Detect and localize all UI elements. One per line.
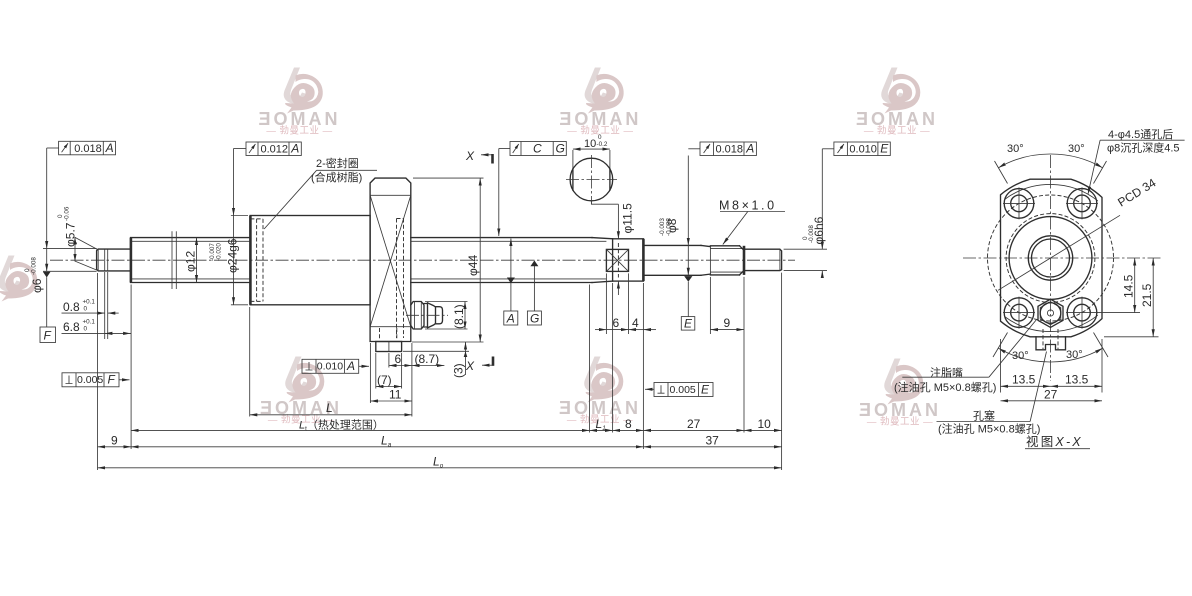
svg-text:φ12: φ12: [184, 251, 198, 272]
dim 0.8 groove width: [104, 272, 106, 339]
svg-text:-0.06: -0.06: [64, 206, 71, 221]
ball nut body phi24g6: [250, 216, 370, 305]
svg-text:30°: 30°: [1007, 143, 1024, 155]
shaft step face at screw start: [130, 238, 133, 283]
svg-text:6.8: 6.8: [63, 320, 80, 334]
extension journal right face: [642, 283, 644, 449]
grease nipple side view: [411, 302, 424, 330]
angle dim 30/30 top: [999, 154, 1051, 168]
flange bottom tab: [376, 342, 402, 352]
MAIN VIEW: [24, 134, 890, 470]
svg-text:30°: 30°: [1066, 349, 1083, 361]
phi6h6 end journal: [744, 249, 782, 270]
svg-text:Lt（热处理范围）: Lt（热处理范围）: [299, 418, 384, 433]
bolt hole top-right: [1067, 189, 1097, 219]
bolt hole bottom-left: [1004, 298, 1034, 328]
tolerance frame runout C G: [510, 142, 566, 156]
extensions 6/4 bearing dims: [605, 273, 607, 334]
svg-text:0.005: 0.005: [670, 384, 696, 396]
watermark bottom-middle: [559, 357, 641, 426]
watermark top-middle: [559, 68, 641, 137]
svg-text:φ8沉孔深度4.5: φ8沉孔深度4.5: [1107, 141, 1180, 155]
svg-text:(8.1): (8.1): [452, 304, 466, 329]
svg-text:X: X: [465, 149, 475, 163]
svg-text:视图X-X: 视图X-X: [1026, 434, 1083, 449]
svg-text:0.012: 0.012: [261, 144, 289, 156]
pilot circle: [1009, 217, 1092, 300]
watermark partial far left: [0, 256, 37, 302]
bottom dim row Lo: [98, 467, 782, 469]
tolerance frame 0.018 A left: [59, 141, 116, 155]
svg-text:30°: 30°: [1012, 350, 1029, 362]
datum E box: [681, 317, 695, 331]
datum G on axis: [533, 261, 535, 311]
svg-text:0.010: 0.010: [317, 361, 343, 373]
dim (3) tab: [412, 341, 484, 343]
dim (8.7): [412, 365, 445, 367]
grease nipple end-on hex: [1038, 299, 1063, 327]
dim 6.8: [62, 332, 132, 334]
datum F flag: [43, 272, 51, 278]
dim phi44 flange: [413, 177, 484, 179]
bottom dim row Lt L1 8 27 10: [131, 429, 589, 431]
dim (7) tab: [375, 353, 377, 389]
svg-text:4: 4: [632, 316, 639, 330]
svg-text:G: G: [530, 311, 539, 325]
dim phi24g6 nut body: [231, 215, 248, 217]
svg-text:30°: 30°: [1068, 143, 1085, 155]
svg-text:(8.7): (8.7): [415, 352, 440, 366]
svg-text:6: 6: [613, 316, 620, 330]
svg-text:A: A: [290, 142, 299, 156]
svg-text:F: F: [44, 329, 52, 343]
dim 27: [1001, 400, 1103, 402]
svg-text:4-φ4.5通孔后: 4-φ4.5通孔后: [1108, 128, 1173, 141]
svg-text:37: 37: [706, 434, 720, 448]
svg-text:9: 9: [724, 316, 731, 330]
flange chamfer arcs: [1005, 184, 1098, 200]
svg-text:10: 10: [584, 138, 596, 150]
extension line thread end: [589, 285, 591, 433]
dim 11 flange width: [369, 343, 371, 403]
M8x1.0 thread section: [710, 245, 739, 247]
dim phi5.7 groove: [74, 237, 76, 262]
svg-text:E: E: [684, 317, 693, 331]
flat cross-section circle: [570, 158, 613, 201]
svg-text:14.5: 14.5: [1122, 274, 1136, 298]
seal (dashed) inside nut left end: [256, 219, 258, 302]
screw shaft thread root lines: [131, 240, 251, 242]
dim 9 M8 length: [710, 329, 744, 331]
svg-text:0.018: 0.018: [74, 143, 102, 155]
svg-text:-0.2: -0.2: [597, 141, 608, 148]
tolerance frame 0.012 A mid: [246, 142, 301, 156]
svg-text:M8×1.0: M8×1.0: [719, 199, 777, 213]
bolt hole top-left: [1004, 189, 1034, 219]
datum A on screw: [510, 239, 512, 312]
shaft phi8 section: [643, 244, 701, 246]
svg-text:(注油孔 M5×0.8螺孔): (注油孔 M5×0.8螺孔): [894, 380, 996, 394]
watermark bottom-right: [859, 359, 941, 428]
extension line tip left face: [97, 273, 99, 470]
svg-text:21.5: 21.5: [1140, 283, 1154, 307]
extension journal left face: [612, 283, 614, 433]
svg-text:φ24g6: φ24g6: [226, 238, 240, 273]
centerline of screw shaft: [50, 259, 795, 261]
dim 21.5: [1104, 336, 1159, 338]
svg-text:C: C: [533, 142, 542, 156]
svg-text:-0.020: -0.020: [216, 243, 223, 261]
center crosshair: [963, 257, 1161, 259]
frame perp 0.005 F: [62, 373, 119, 387]
svg-text:E: E: [701, 382, 710, 396]
svg-text:6: 6: [395, 352, 402, 366]
svg-text:(合成树脂): (合成树脂): [311, 170, 362, 184]
bolt hole bottom-right: [1067, 298, 1097, 328]
frame perp 0.005 E: [654, 383, 713, 397]
flange cross X: [370, 195, 411, 326]
extension shaft right end: [781, 273, 783, 470]
watermark top-right: [856, 68, 938, 137]
svg-text:A: A: [506, 311, 515, 325]
bottom dim row 9 La 37: [98, 446, 132, 448]
svg-text:0.010: 0.010: [849, 144, 877, 156]
svg-text:A: A: [745, 142, 754, 156]
svg-text:2-密封圈: 2-密封圈: [316, 156, 359, 170]
screw crest/root circles: [1028, 236, 1072, 280]
thread start marker double lines: [171, 231, 173, 289]
svg-text:(注油孔 M5×0.8螺孔): (注油孔 M5×0.8螺孔): [938, 422, 1040, 436]
bearing block with X: [606, 249, 628, 271]
connector from section circle to journal: [591, 201, 618, 204]
dim 6 and 4: [595, 329, 606, 331]
dim L nut: [249, 307, 251, 417]
svg-text:0: 0: [598, 134, 602, 141]
dim phi6 left tip: [43, 248, 97, 250]
watermark top-left: [259, 68, 341, 137]
frame perp 0.010 A: [302, 359, 359, 373]
svg-text:-0.008: -0.008: [31, 257, 38, 275]
svg-text:(7): (7): [377, 373, 392, 387]
svg-text:孔塞: 孔塞: [973, 409, 995, 423]
END VIEW: [894, 128, 1185, 449]
svg-text:φ5.7: φ5.7: [64, 222, 78, 247]
dim 14.5: [1097, 312, 1140, 314]
svg-text:A: A: [346, 359, 355, 373]
extension M8 end: [743, 277, 745, 433]
svg-text:27: 27: [1044, 387, 1058, 401]
PCD 34 leader: [998, 215, 1120, 290]
svg-text:+0.1: +0.1: [83, 299, 96, 306]
svg-text:0.018: 0.018: [716, 144, 744, 156]
svg-text:0: 0: [84, 326, 88, 333]
dim 13.5 13.5: [1000, 339, 1002, 393]
svg-text:13.5: 13.5: [1065, 373, 1089, 387]
circlip groove 0.8 on tip: [104, 249, 106, 270]
dim 6 oil hole: [388, 353, 390, 368]
tolerance frame 0.018 A right: [700, 142, 756, 156]
svg-text:9: 9: [111, 434, 118, 448]
extension line screw start: [130, 285, 132, 450]
svg-text:φ11.5: φ11.5: [621, 203, 635, 234]
svg-text:(3): (3): [452, 363, 466, 378]
svg-text:11: 11: [389, 388, 402, 402]
angle dim 30/30 bottom: [999, 348, 1051, 362]
svg-text:0: 0: [84, 306, 88, 313]
left tip shaft phi6: [97, 249, 131, 271]
svg-text:-0.008: -0.008: [666, 218, 673, 236]
dim phi6h6: [784, 248, 827, 250]
nut body dashed circle: [1006, 214, 1095, 303]
svg-text:0.005: 0.005: [77, 374, 103, 386]
svg-text:13.5: 13.5: [1012, 373, 1036, 387]
nut flange phi44 block: [370, 178, 411, 341]
thread runout taper right: [592, 238, 613, 239]
svg-text:10: 10: [758, 417, 772, 431]
svg-text:φ6: φ6: [30, 278, 44, 293]
svg-text:+0.1: +0.1: [83, 319, 96, 326]
svg-text:E: E: [880, 142, 889, 156]
flange outline X-X view: [1001, 179, 1103, 337]
svg-text:8: 8: [625, 417, 632, 431]
svg-text:-0.008: -0.008: [808, 225, 815, 243]
watermark bottom-left: [260, 357, 342, 426]
bearing journal phi11.5: [613, 239, 644, 281]
svg-text:L: L: [326, 401, 333, 415]
svg-text:0.8: 0.8: [63, 300, 80, 314]
PCD 34 dashed circle: [988, 195, 1114, 321]
screw shaft thread crest lines: [131, 237, 251, 239]
plug tab bottom: [1036, 337, 1066, 350]
svg-text:φ44: φ44: [466, 255, 480, 276]
svg-text:G: G: [556, 142, 565, 156]
svg-text:27: 27: [687, 417, 701, 431]
grease hole dashed in flange: [396, 219, 398, 339]
svg-text:A: A: [105, 141, 114, 155]
svg-text:F: F: [108, 373, 116, 387]
dim (8.1) nipple: [425, 301, 468, 303]
tolerance frame 0.010 E right: [834, 142, 890, 156]
svg-text:X: X: [465, 359, 475, 373]
